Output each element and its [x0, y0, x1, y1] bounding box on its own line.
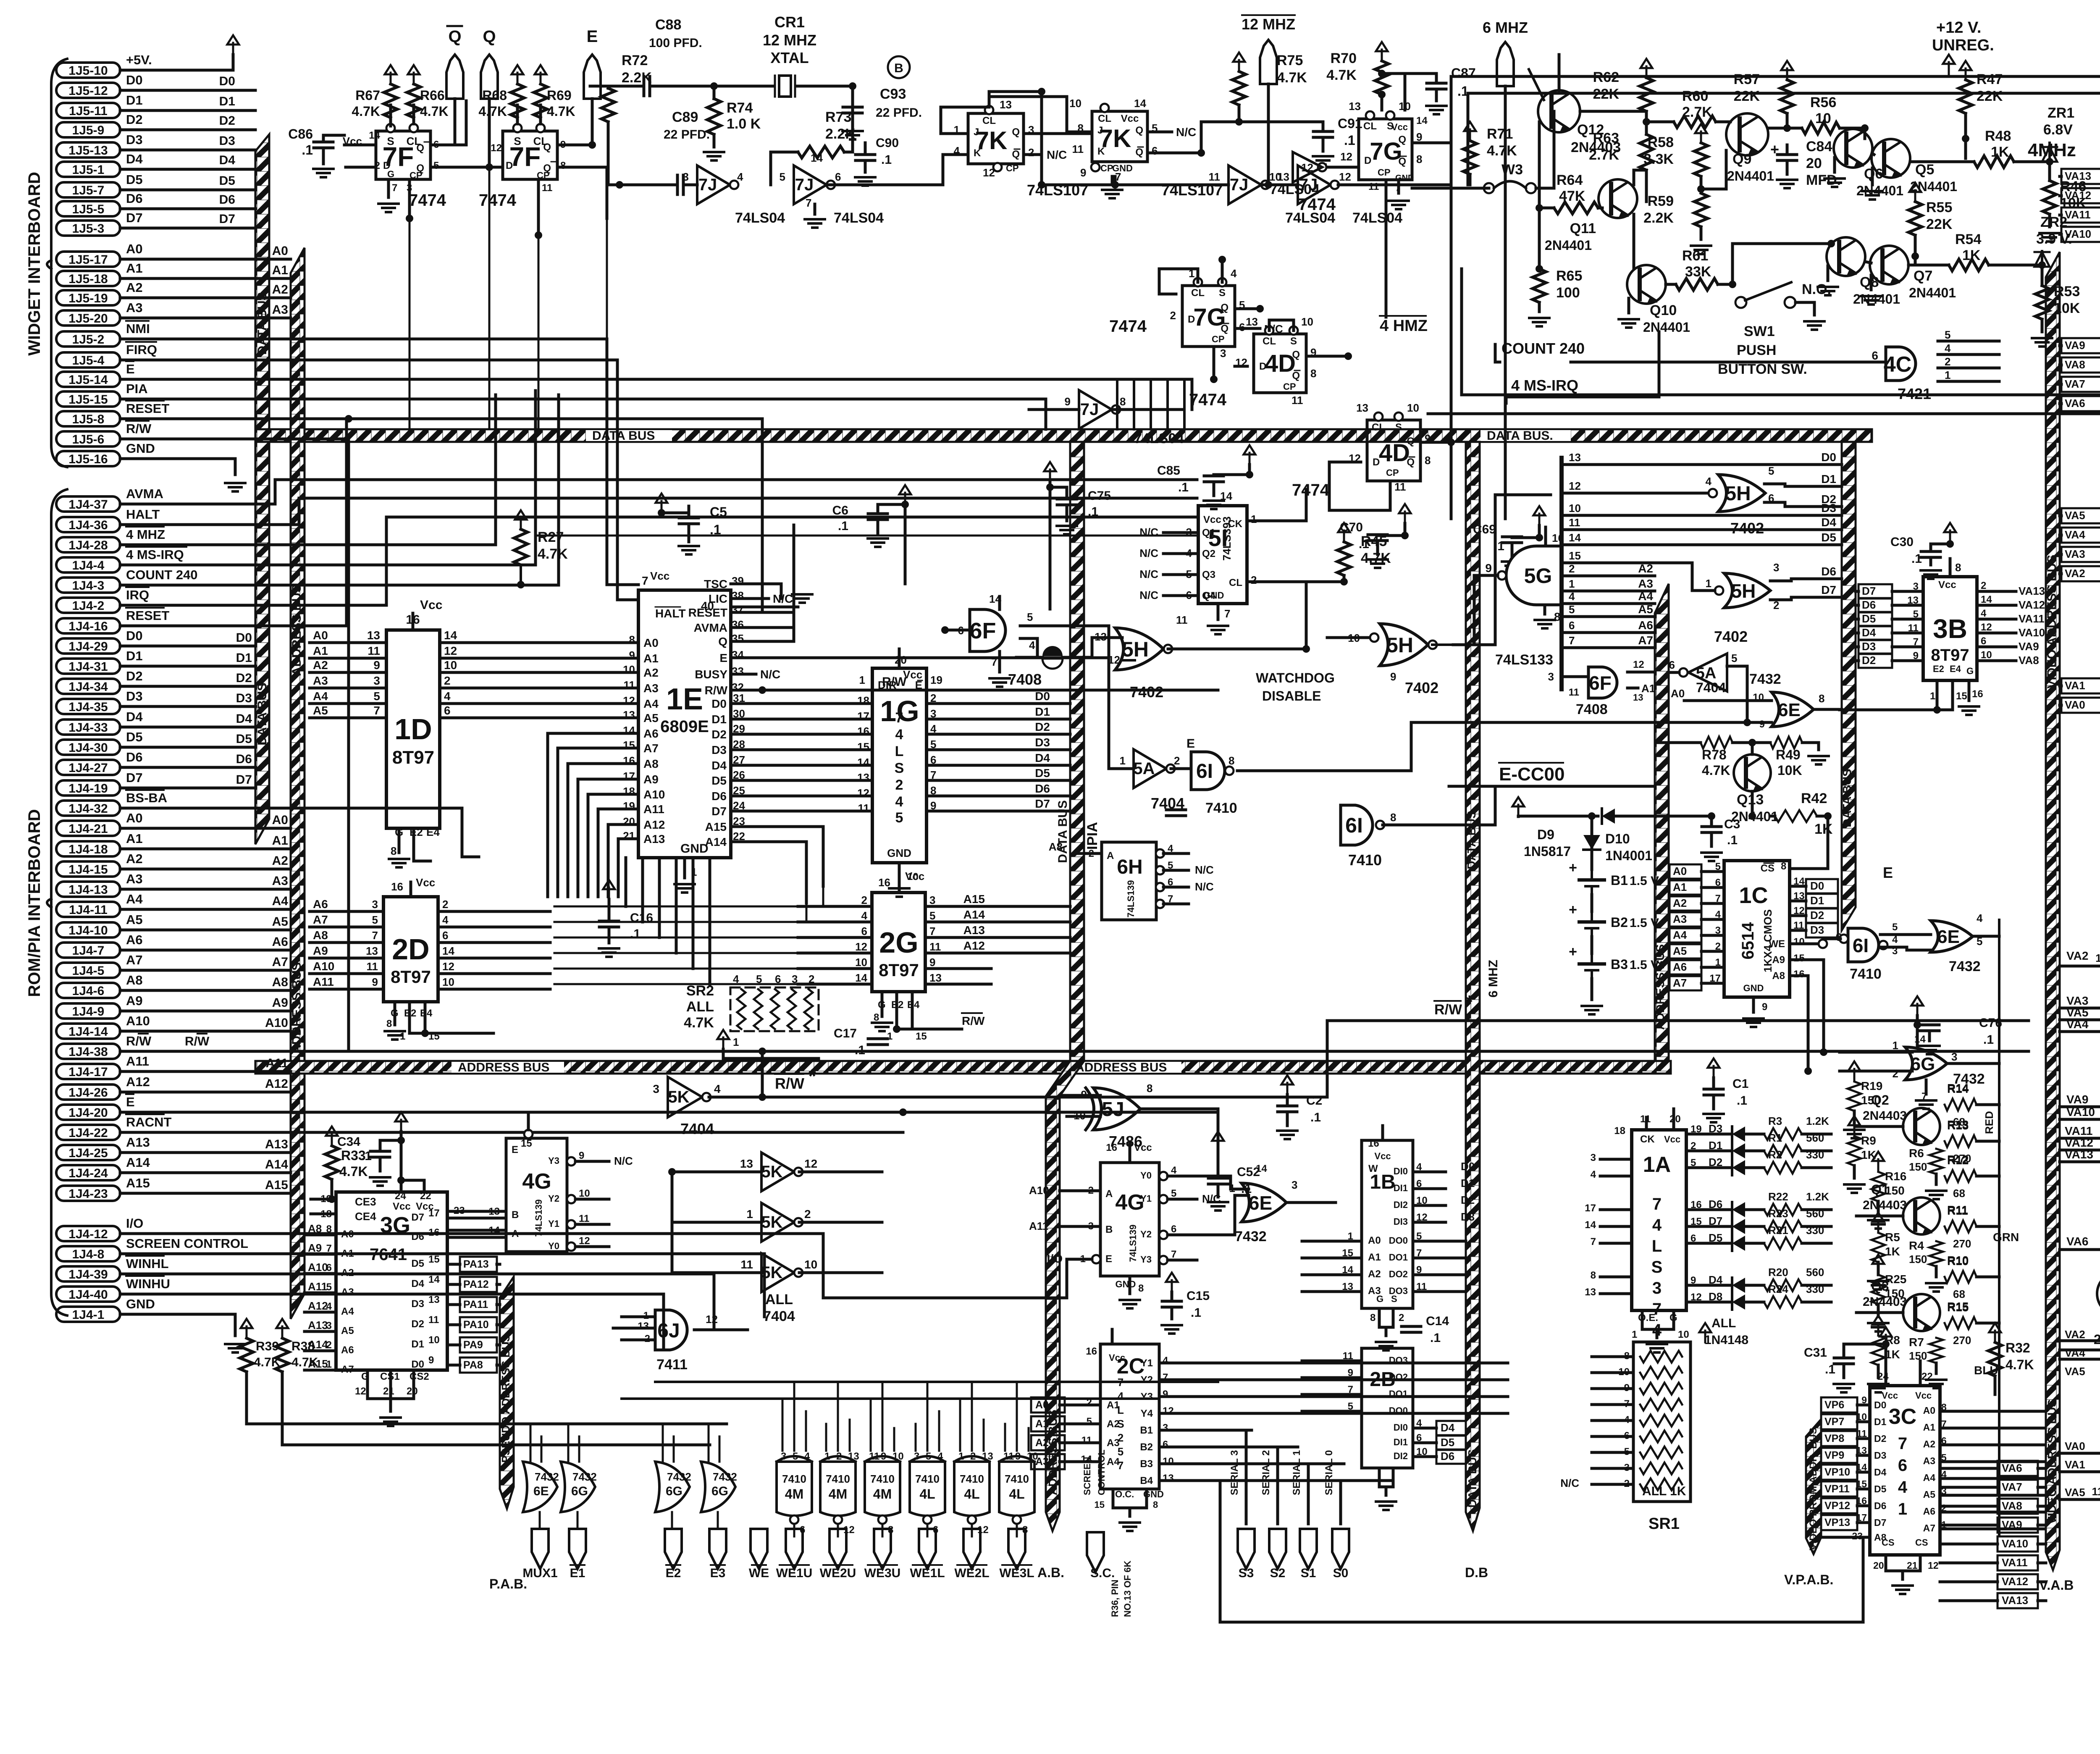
- svg-text:9: 9: [428, 1355, 434, 1366]
- flip-flop 4D (second): [1367, 420, 1420, 481]
- svg-text:4: 4: [1945, 342, 1951, 354]
- svg-text:A2: A2: [272, 283, 288, 297]
- svg-text:12: 12: [623, 694, 635, 707]
- svg-text:2N4403: 2N4403: [1863, 1198, 1907, 1212]
- svg-text:A8: A8: [308, 1222, 322, 1235]
- svg-text:7: 7: [642, 574, 648, 587]
- svg-text:15: 15: [1856, 1478, 1867, 1489]
- output bullet WE2L: [963, 1529, 980, 1569]
- svg-text:O.C.: O.C.: [1115, 1489, 1134, 1499]
- 4G b output 6: [1159, 1231, 1168, 1239]
- connector 1J4-9 (A9): [56, 1003, 120, 1019]
- svg-text:4M: 4M: [829, 1486, 847, 1502]
- svg-text:D7: D7: [1035, 797, 1050, 810]
- svg-text:4.7K: 4.7K: [684, 1015, 714, 1031]
- svg-text:1N5817: 1N5817: [1524, 844, 1571, 859]
- and gate 6F (near 1E): [970, 609, 1005, 651]
- svg-text:A10: A10: [1029, 1184, 1049, 1197]
- svg-text:Vcc: Vcc: [1391, 122, 1408, 132]
- svg-text:E1: E1: [570, 1566, 585, 1580]
- svg-text:1: 1: [887, 1031, 892, 1042]
- svg-text:A9: A9: [308, 1242, 322, 1254]
- wire VA9 to video bus: [2061, 338, 2100, 353]
- svg-text:Y3: Y3: [548, 1155, 559, 1166]
- svg-text:R11: R11: [1947, 1204, 1968, 1217]
- svg-text:2D: 2D: [392, 933, 429, 966]
- svg-text:Q: Q: [416, 142, 424, 154]
- flip-flop 4D (first): [1254, 334, 1306, 393]
- svg-text:S: S: [514, 135, 521, 147]
- serial bullet S0: [1332, 1529, 1349, 1569]
- svg-text:.1: .1: [881, 153, 892, 167]
- svg-text:CS: CS: [1882, 1537, 1895, 1548]
- cap C70: [1368, 533, 1387, 536]
- svg-text:D2: D2: [1874, 1433, 1886, 1444]
- svg-text:Q: Q: [1012, 126, 1020, 138]
- connector 1J5-9 (D2): [56, 122, 120, 137]
- svg-text:D7: D7: [236, 773, 252, 787]
- or gate 6G #3: [701, 1462, 735, 1512]
- cap C69: [1502, 536, 1522, 538]
- 3B output VA9: [1977, 646, 2016, 649]
- svg-text:R53: R53: [2054, 284, 2080, 299]
- svg-text:7404: 7404: [1696, 680, 1726, 695]
- svg-text:1J4-3: 1J4-3: [72, 579, 105, 593]
- svg-text:7408: 7408: [1008, 671, 1042, 688]
- A.B. S.C. bullets: [1087, 1532, 1104, 1572]
- wire A10 from 2D/3G area: [588, 793, 638, 796]
- 7F2 wiring: [516, 105, 519, 124]
- svg-text:COUNT 240: COUNT 240: [1501, 340, 1585, 357]
- svg-text:A0: A0: [313, 629, 328, 642]
- svg-text:VP6: VP6: [1824, 1399, 1844, 1411]
- resistor R45 4.7K: [1338, 523, 1350, 542]
- svg-text:1J4-24: 1J4-24: [68, 1166, 108, 1180]
- svg-text:.1: .1: [361, 1149, 372, 1163]
- svg-text:D: D: [506, 160, 513, 171]
- svg-text:B2: B2: [1140, 1442, 1153, 1453]
- pseudo address bus vertical bar (P.A.B.): [500, 1277, 514, 1509]
- xor gate 5J: [1093, 1088, 1140, 1130]
- svg-text:WE3U: WE3U: [864, 1566, 901, 1580]
- 4G b output 4: [1159, 1172, 1168, 1180]
- svg-text:6F: 6F: [1589, 672, 1612, 694]
- svg-text:D7: D7: [126, 770, 143, 785]
- svg-text:6G: 6G: [666, 1484, 682, 1498]
- transceiver 1G 74LS245: [872, 668, 927, 863]
- svg-text:14: 14: [1569, 531, 1581, 544]
- svg-text:WE1U: WE1U: [776, 1566, 813, 1580]
- svg-text:6: 6: [1171, 1224, 1176, 1235]
- connector 1J4-18 (A1): [56, 841, 120, 856]
- 2B bottom: [1378, 1468, 1381, 1487]
- svg-text:K: K: [1097, 146, 1105, 157]
- svg-text:6: 6: [442, 929, 448, 942]
- svg-text:VA2: VA2: [2065, 567, 2085, 580]
- svg-text:18: 18: [1614, 1125, 1625, 1137]
- svg-text:10: 10: [442, 976, 454, 988]
- svg-text:13: 13: [1856, 1445, 1867, 1456]
- connector 1J4-6 (A8): [56, 983, 120, 998]
- connector 1J4-17 (A11): [56, 1064, 120, 1079]
- svg-text:1: 1: [733, 1036, 739, 1048]
- svg-text:16: 16: [1972, 688, 1983, 700]
- svg-text:100 PFD.: 100 PFD.: [649, 36, 702, 50]
- connector 1J4-36 (HALT): [56, 517, 120, 532]
- wire 7K cross: [988, 97, 991, 107]
- wire R/W* long: [762, 1021, 2029, 1097]
- svg-text:R47: R47: [1977, 71, 2003, 87]
- svg-text:B: B: [512, 1209, 519, 1221]
- stubs into 6E/6G gates: [530, 1424, 532, 1463]
- svg-text:CP: CP: [409, 170, 423, 181]
- svg-text:VA9: VA9: [2002, 1518, 2022, 1531]
- svg-text:7432: 7432: [1749, 671, 1781, 687]
- svg-text:15: 15: [916, 1031, 927, 1042]
- decoder 4G b: [1100, 1163, 1159, 1276]
- svg-text:6: 6: [1715, 877, 1721, 888]
- svg-text:GND: GND: [887, 847, 911, 859]
- svg-text:SERIAL 0: SERIAL 0: [1323, 1450, 1335, 1495]
- svg-text:D5: D5: [711, 774, 727, 787]
- svg-text:C34: C34: [337, 1135, 360, 1149]
- 1C address A6: [1669, 960, 1701, 974]
- data bus (left vertical hatched bar): [255, 134, 269, 429]
- resistor R58 3.3K: [1695, 124, 1707, 143]
- svg-text:13: 13: [1569, 451, 1581, 464]
- svg-text:SERIAL 3: SERIAL 3: [1229, 1450, 1240, 1495]
- output bullet WE3L: [1008, 1529, 1025, 1569]
- svg-text:Y3: Y3: [1140, 1254, 1152, 1265]
- 3C input VP8: [1821, 1431, 1857, 1446]
- svg-text:PA12: PA12: [463, 1279, 489, 1290]
- svg-text:6I: 6I: [1853, 935, 1869, 956]
- svg-text:D6: D6: [126, 750, 143, 764]
- svg-text:DI2: DI2: [1394, 1451, 1408, 1461]
- nand gate 6I c: [1848, 928, 1879, 962]
- to-sheet output E: [584, 55, 601, 99]
- inverter 5A b (mirrored): [1688, 654, 1727, 691]
- wire A12 from 2D/3G area: [608, 823, 638, 826]
- svg-text:1J4-38: 1J4-38: [68, 1045, 108, 1059]
- nand gate 4M #1: [820, 1462, 856, 1516]
- svg-text:A0: A0: [1673, 865, 1687, 877]
- svg-text:2.7K: 2.7K: [1682, 104, 1712, 120]
- svg-text:LIC: LIC: [709, 592, 727, 605]
- svg-text:A2: A2: [1035, 1437, 1049, 1449]
- svg-text:6I: 6I: [1196, 760, 1213, 782]
- buffer 2D 8T97: [383, 897, 438, 1002]
- svg-text:D0: D0: [1035, 690, 1050, 703]
- svg-text:1: 1: [958, 1451, 964, 1462]
- buffer 1D 8T97: [386, 630, 440, 828]
- svg-text:C84: C84: [1806, 139, 1832, 155]
- svg-text:1J4-32: 1J4-32: [68, 802, 108, 816]
- svg-text:13: 13: [1163, 1473, 1174, 1484]
- svg-text:A8: A8: [1772, 970, 1785, 982]
- 5H d gate: [1724, 573, 1770, 608]
- svg-text:1J4-14: 1J4-14: [68, 1025, 108, 1039]
- transistor Q10 2N4401: [1627, 265, 1666, 304]
- svg-text:7410: 7410: [960, 1473, 984, 1485]
- svg-text:VIDEO ADDRESS BUS: VIDEO ADDRESS BUS: [2045, 1399, 2058, 1524]
- svg-text:4D: 4D: [1265, 350, 1296, 377]
- svg-text:2: 2: [970, 1451, 976, 1462]
- svg-text:A2: A2: [643, 666, 659, 679]
- svg-text:R1: R1: [1768, 1132, 1782, 1144]
- svg-text:C86: C86: [288, 126, 313, 142]
- resistor R74: [707, 99, 721, 134]
- svg-text:R72: R72: [622, 53, 648, 68]
- nand gate 4L #5: [999, 1462, 1034, 1516]
- connector 1J4-2 (IRQ): [56, 598, 120, 613]
- svg-text:15: 15: [1095, 1499, 1105, 1510]
- resistor pack SR2 (dashed): [730, 987, 819, 1031]
- svg-text:11: 11: [367, 644, 380, 657]
- svg-text:E: E: [512, 1144, 518, 1155]
- jk flip-flop 7K second: [1092, 111, 1147, 162]
- 4G b output 5: [1159, 1195, 1168, 1203]
- and gate 6F b: [1588, 667, 1617, 698]
- svg-text:A5: A5: [643, 712, 659, 725]
- svg-text:COUNT 240: COUNT 240: [126, 567, 198, 582]
- 4G a output Y3: [567, 1157, 575, 1166]
- svg-text:A1: A1: [643, 652, 659, 665]
- wire address line A4 via 1D: [310, 702, 386, 705]
- svg-text:I/O: I/O: [126, 1216, 143, 1231]
- svg-text:11: 11: [428, 1314, 439, 1326]
- svg-text:1K: 1K: [1885, 1245, 1900, 1258]
- svg-text:12: 12: [804, 1157, 817, 1170]
- inverter 7J c: [1228, 165, 1261, 204]
- svg-text:74LS04: 74LS04: [735, 210, 785, 226]
- svg-text:13: 13: [1585, 1287, 1596, 1298]
- svg-text:100: 100: [1556, 285, 1580, 301]
- register 2B: [1362, 1348, 1413, 1468]
- svg-text:9: 9: [629, 649, 635, 662]
- wire control signal 1J4: [120, 480, 1197, 504]
- output bullet E3: [709, 1529, 726, 1569]
- 3B output VA8: [1977, 659, 2016, 662]
- wire A5 1J4 to address bus: [120, 929, 291, 932]
- wire I/O to 4G2: [823, 1259, 1067, 1298]
- resistor R63 2.7K: [1640, 134, 1653, 170]
- wire A6 row: [1562, 631, 1655, 634]
- svg-text:FIRQ: FIRQ: [126, 342, 157, 357]
- svg-text:4 MS-IRQ: 4 MS-IRQ: [126, 547, 184, 562]
- svg-text:.1: .1: [1494, 539, 1504, 553]
- svg-text:4L: 4L: [919, 1486, 935, 1502]
- resistor R42 1K: [1775, 810, 1817, 822]
- svg-text:VA11: VA11: [2002, 1556, 2028, 1569]
- svg-text:D6: D6: [219, 193, 235, 207]
- svg-text:A7: A7: [272, 955, 288, 969]
- svg-text:VP8: VP8: [1824, 1433, 1844, 1444]
- svg-text:WATCHDOG: WATCHDOG: [1256, 670, 1335, 685]
- svg-text:1J5-9: 1J5-9: [72, 123, 105, 137]
- svg-text:Vcc: Vcc: [393, 1201, 411, 1212]
- svg-text:A1: A1: [126, 261, 143, 276]
- svg-text:1K: 1K: [1814, 821, 1833, 837]
- svg-text:DATA BUS.: DATA BUS.: [1487, 429, 1553, 443]
- wire VA6 to video bus: [2061, 396, 2100, 411]
- 3C input VP10: [1821, 1465, 1857, 1480]
- svg-text:Q9: Q9: [1732, 151, 1751, 167]
- svg-text:1: 1: [1120, 754, 1126, 767]
- svg-text:150: 150: [1909, 1350, 1927, 1362]
- wire 1E E: [794, 656, 1109, 659]
- svg-text:10K: 10K: [1777, 763, 1802, 778]
- svg-text:5: 5: [1027, 611, 1033, 623]
- svg-text:1J5-12: 1J5-12: [68, 84, 108, 98]
- svg-text:9: 9: [1065, 395, 1071, 408]
- connector 1J4-37 (AVMA): [56, 496, 120, 512]
- connector 1J4-20 (E): [56, 1105, 120, 1120]
- svg-text:S2: S2: [1270, 1566, 1286, 1580]
- wire VA0 to video bus: [2061, 698, 2100, 713]
- svg-text:6: 6: [1163, 1439, 1168, 1450]
- svg-text:330: 330: [1806, 1148, 1824, 1161]
- svg-text:Y1: Y1: [1141, 1358, 1153, 1369]
- svg-text:Q11: Q11: [1570, 221, 1596, 236]
- 4G b output 7: [1159, 1256, 1168, 1264]
- verticals from top into data bus: [488, 167, 491, 429]
- connector 1J5-18 (A1): [56, 271, 120, 286]
- svg-text:6: 6: [326, 1262, 332, 1273]
- svg-text:NMI: NMI: [126, 321, 150, 336]
- wire WINHL: [120, 1274, 714, 1327]
- svg-text:10: 10: [623, 663, 635, 676]
- svg-text:4: 4: [804, 1451, 810, 1462]
- svg-text:2: 2: [1893, 1067, 1898, 1080]
- svg-text:4.7K: 4.7K: [478, 104, 507, 119]
- resistor R33 4.7K: [326, 1126, 338, 1146]
- svg-text:D3: D3: [711, 743, 727, 756]
- svg-text:4.7K: 4.7K: [339, 1164, 368, 1179]
- svg-text:S.C.: S.C.: [1090, 1566, 1115, 1580]
- svg-text:Vcc: Vcc: [650, 570, 669, 582]
- svg-text:S: S: [1290, 336, 1297, 347]
- svg-text:VA1: VA1: [2065, 679, 2085, 692]
- 3B output VA11: [1977, 618, 2016, 621]
- wire A4 row: [1562, 602, 1655, 605]
- svg-text:1J4-10: 1J4-10: [68, 924, 108, 937]
- wire WINHU: [120, 1294, 664, 1348]
- cap C85: [1204, 475, 1223, 478]
- svg-text:VA2: VA2: [2065, 1328, 2085, 1341]
- svg-text:21: 21: [383, 1386, 394, 1397]
- svg-text:A5: A5: [1638, 603, 1653, 616]
- svg-text:9: 9: [1913, 650, 1919, 662]
- svg-text:17: 17: [857, 710, 869, 722]
- svg-text:CP: CP: [1100, 163, 1113, 173]
- wire D7 1J5 to data bus: [120, 227, 255, 230]
- svg-text:VA0: VA0: [2065, 1440, 2085, 1452]
- svg-text:11: 11: [869, 1451, 879, 1462]
- resistor R9: [1848, 1136, 1861, 1166]
- transistor Q12 2N4403: [1538, 90, 1580, 132]
- transistor Q13 2N4401: [1734, 754, 1771, 791]
- svg-text:.1: .1: [1344, 133, 1355, 148]
- svg-text:1J5-19: 1J5-19: [68, 291, 108, 305]
- svg-text:A6: A6: [126, 932, 143, 947]
- 3B input D2: [1858, 654, 1892, 668]
- svg-text:2: 2: [442, 898, 448, 911]
- svg-text:D6: D6: [1862, 599, 1876, 611]
- svg-text:DI3: DI3: [1394, 1216, 1408, 1227]
- connector 1J5-17 (A0): [56, 252, 120, 267]
- svg-text:1J5-3: 1J5-3: [72, 222, 105, 236]
- connector 1J5-14 (E): [56, 372, 120, 387]
- wire D3 1J5 to data bus: [120, 149, 255, 152]
- wire 12MHz to 7G: [1450, 143, 1453, 442]
- svg-text:D1: D1: [236, 651, 252, 665]
- svg-text:2N4401: 2N4401: [1727, 168, 1774, 184]
- svg-text:RED: RED: [1983, 1111, 1995, 1134]
- wire A7 row: [1562, 646, 1655, 649]
- or gate 6E b: [1772, 692, 1814, 727]
- svg-text:3: 3: [1163, 1422, 1168, 1434]
- wire RACNT: [120, 1131, 903, 1134]
- wire A1 1J4 to address bus: [120, 848, 291, 851]
- wire GND 1J5-16: [120, 459, 235, 475]
- svg-text:B4: B4: [1140, 1475, 1153, 1486]
- svg-text:A1: A1: [313, 644, 328, 657]
- svg-text:A8: A8: [272, 975, 288, 989]
- svg-text:CP: CP: [1283, 381, 1296, 392]
- svg-text:Vcc: Vcc: [420, 598, 442, 612]
- svg-text:D: D: [1373, 457, 1380, 468]
- 3G address input A12: [304, 1311, 336, 1314]
- svg-text:4L: 4L: [1009, 1486, 1024, 1502]
- svg-text:A10: A10: [643, 788, 665, 801]
- svg-text:11: 11: [1394, 481, 1406, 493]
- svg-text:A4: A4: [126, 892, 143, 906]
- svg-text:CONTROL: CONTROL: [1096, 1449, 1107, 1495]
- svg-text:10: 10: [428, 1334, 440, 1346]
- svg-text:R78: R78: [1702, 747, 1727, 762]
- svg-text:Q10: Q10: [1650, 302, 1677, 318]
- svg-text:A1: A1: [1673, 881, 1687, 893]
- svg-text:A0: A0: [643, 636, 659, 649]
- svg-text:D5: D5: [1441, 1436, 1454, 1449]
- svg-text:D6: D6: [1821, 565, 1836, 578]
- to-sheet output Q: [481, 55, 498, 99]
- wire A13 from 2D/3G area: [618, 838, 638, 840]
- svg-text:6: 6: [930, 754, 936, 766]
- svg-text:Q7: Q7: [1914, 268, 1932, 284]
- svg-text:Q: Q: [1221, 323, 1228, 334]
- svg-text:14: 14: [1256, 1163, 1267, 1174]
- svg-text:A2: A2: [1673, 897, 1687, 909]
- svg-text:2: 2: [861, 894, 867, 906]
- wire R58 junction: [1701, 188, 1726, 191]
- svg-text:3: 3: [1652, 1279, 1662, 1297]
- inverter 7J b: [794, 165, 827, 204]
- svg-text:R13: R13: [1947, 1119, 1969, 1132]
- svg-text:A3: A3: [126, 872, 143, 886]
- widget interboard bracket: [51, 59, 67, 467]
- svg-text:12: 12: [855, 940, 867, 953]
- connector 1J5-7 (D5): [56, 182, 120, 197]
- svg-text:R6: R6: [1909, 1147, 1924, 1160]
- svg-text:DIR: DIR: [878, 679, 897, 691]
- svg-text:VA12: VA12: [2065, 1136, 2093, 1149]
- svg-text:A6: A6: [313, 898, 328, 911]
- svg-text:15: 15: [521, 1138, 532, 1149]
- svg-text:1J4-2: 1J4-2: [72, 599, 105, 613]
- svg-text:R21: R21: [1768, 1224, 1788, 1237]
